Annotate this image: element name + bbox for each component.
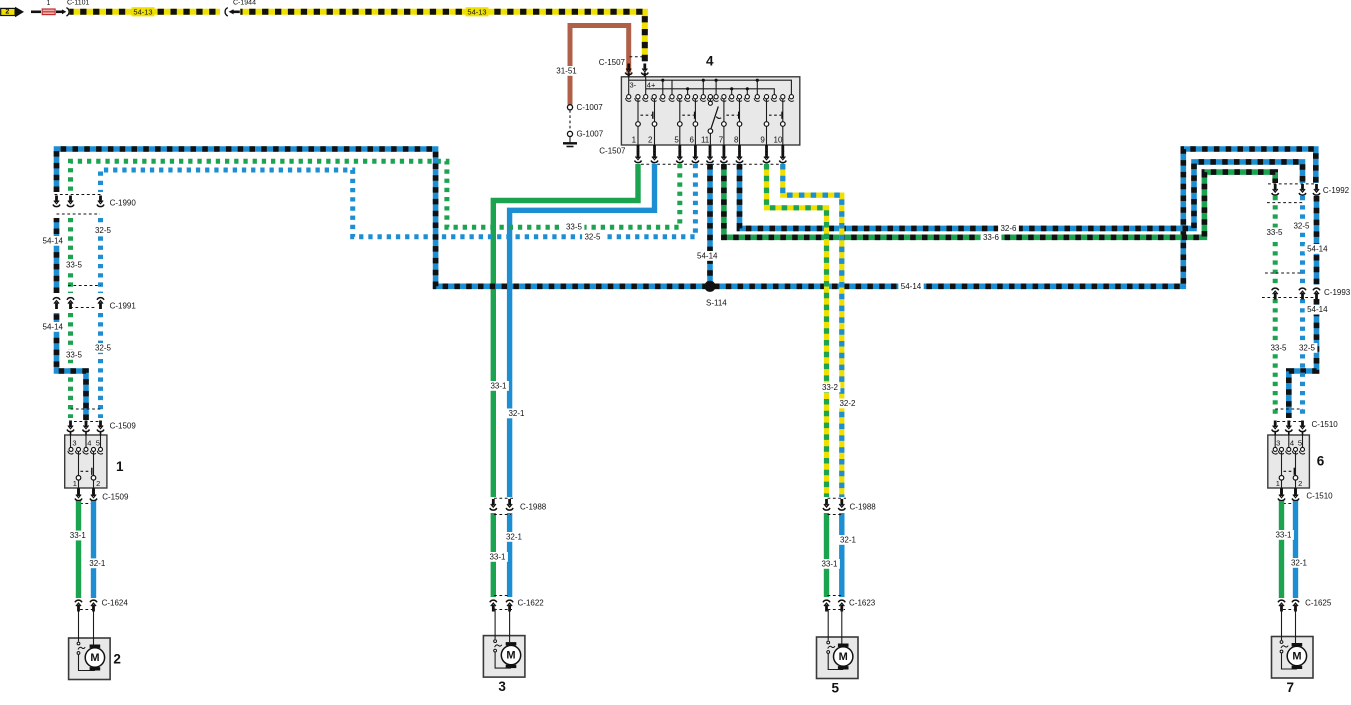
svg-text:54-14: 54-14 [43, 237, 64, 246]
svg-text:54-14: 54-14 [1307, 305, 1328, 314]
connector C-1988 (motor 5) [828, 497, 847, 499]
svg-text:3: 3 [72, 439, 76, 448]
svg-text:33-6: 33-6 [983, 233, 1000, 242]
wire 33-5 green dashed from pin 5 to switch 1 [71, 161, 680, 227]
wire 33-1 green switch 6 to motor 7 [1279, 501, 1284, 598]
svg-text:M: M [90, 652, 99, 664]
svg-text:32-1: 32-1 [1291, 559, 1308, 568]
svg-text:5: 5 [674, 135, 679, 144]
switch 6 body [1268, 435, 1310, 488]
svg-text:32-5: 32-5 [95, 344, 112, 353]
svg-text:7: 7 [1286, 680, 1294, 695]
svg-text:3: 3 [498, 679, 506, 694]
svg-text:54-14: 54-14 [697, 252, 718, 261]
wire 33-2 yellow/green from pin 9 [767, 164, 827, 497]
svg-text:10: 10 [774, 135, 783, 144]
right column wire labels upper [1264, 228, 1285, 238]
switch module 4 (master window switch) body [621, 77, 799, 145]
svg-text:4: 4 [1290, 439, 1294, 448]
svg-text:4: 4 [87, 439, 91, 448]
motor 3 armature [506, 642, 517, 645]
left column wire labels upper [93, 226, 114, 236]
connector C-1510 above switch 6 [1275, 408, 1302, 410]
switch module 4 ganged-switch linkages [641, 114, 653, 116]
svg-text:5: 5 [1298, 439, 1302, 448]
svg-text:31-51: 31-51 [556, 67, 577, 76]
svg-text:C-1988: C-1988 [850, 503, 877, 512]
connector C-1509 below switch 1 [77, 488, 80, 495]
svg-text:C-1624: C-1624 [102, 599, 129, 608]
svg-text:6: 6 [1317, 454, 1325, 469]
motor 7 box (right front) [1272, 637, 1314, 679]
wire 54-14 blue/black from pin 11 to splice S-114 [707, 164, 713, 284]
svg-text:C-1625: C-1625 [1305, 599, 1332, 608]
svg-text:32-5: 32-5 [584, 233, 601, 242]
svg-text:32-5: 32-5 [1299, 344, 1316, 353]
svg-text:C-1944: C-1944 [233, 0, 256, 7]
wire labels middle pair lower [504, 532, 525, 542]
svg-text:C-1007: C-1007 [577, 103, 604, 112]
connector C-1991 [68, 285, 101, 287]
wire 33-5 green dashed right column [1273, 196, 1278, 285]
svg-text:1: 1 [632, 135, 637, 144]
svg-text:C-1507: C-1507 [599, 58, 626, 67]
svg-text:33-5: 33-5 [66, 351, 83, 360]
connector C-1510 below switch 6 [1280, 488, 1283, 495]
svg-text:32-5: 32-5 [95, 226, 112, 235]
wire 33-6 green/black from pin 7 to right side [724, 164, 1275, 237]
wire 32-1 blue from pin 2 to motor 3 [510, 164, 655, 497]
svg-text:C-1992: C-1992 [1323, 186, 1350, 195]
wire labels motor 5 pair [838, 535, 859, 545]
wire 32-2 yellow/blue from pin 10 [783, 164, 842, 497]
svg-text:32-6: 32-6 [1000, 224, 1017, 233]
wire 54-14 blue/black right to switch 6 [1314, 196, 1320, 285]
wire 54-14 blue/black main loop left to switch 1 [57, 313, 87, 420]
wire labels middle pair upper [488, 381, 509, 391]
wire 32-1 blue to motor 5 [839, 513, 844, 597]
wire 54-13 yellow/black to switch module 4 [240, 12, 645, 62]
connector C-1624 [75, 600, 82, 602]
svg-text:2: 2 [5, 9, 9, 16]
svg-text:32-1: 32-1 [89, 559, 106, 568]
connector C-1990 [55, 194, 102, 196]
wire 32-5 blue dashed right column [1300, 196, 1305, 285]
svg-text:2: 2 [96, 479, 100, 488]
svg-text:2: 2 [648, 135, 653, 144]
fuse 1 [42, 9, 55, 15]
motor 5 box (right rear) [817, 637, 859, 679]
svg-text:33-5: 33-5 [1266, 228, 1283, 237]
svg-text:C-1509: C-1509 [102, 493, 129, 502]
connector C-1988 (motor 3) [494, 497, 514, 499]
connector C-1509 above switch 1 [71, 408, 101, 410]
motor 2 thermal breaker [77, 642, 80, 645]
motor 7 leads [1281, 610, 1283, 641]
switch 1 body [65, 435, 107, 488]
right column wire labels lower [1305, 305, 1330, 315]
wire 32-1 blue switch 6 to motor 7 [1293, 501, 1298, 598]
svg-text:M: M [1292, 650, 1301, 662]
motor 3 leads [494, 609, 496, 640]
svg-text:33-1: 33-1 [490, 382, 507, 391]
svg-text:2: 2 [113, 652, 121, 667]
svg-text:32-1: 32-1 [840, 536, 857, 545]
connector C-1623 [828, 595, 844, 597]
wire labels 33-5 / 32-5 horizontal [564, 222, 585, 232]
svg-text:S-114: S-114 [706, 298, 727, 307]
svg-text:32-1: 32-1 [506, 533, 523, 542]
svg-text:33-5: 33-5 [1270, 344, 1287, 353]
svg-text:C-1993: C-1993 [1324, 288, 1351, 297]
svg-text:C-1510: C-1510 [1312, 420, 1339, 429]
motor 7 thermal breaker [1280, 641, 1283, 644]
svg-text:6: 6 [689, 135, 694, 144]
motor 5 thermal breaker [827, 641, 830, 644]
switch module 4 switch contacts [637, 99, 639, 122]
svg-text:9: 9 [760, 135, 765, 144]
switch module 4 bus from pin 3- [628, 77, 630, 95]
svg-text:54-13: 54-13 [467, 7, 486, 16]
svg-text:4+: 4+ [647, 81, 656, 90]
svg-text:33-2: 33-2 [822, 383, 839, 392]
svg-text:33-1: 33-1 [489, 553, 506, 562]
switch 1 internals [70, 432, 72, 436]
svg-text:1: 1 [46, 0, 50, 7]
motor 3 box (left rear) [483, 636, 525, 678]
wire 33-1 green from pin 1 to motor 3 [493, 164, 638, 497]
svg-text:M: M [506, 650, 515, 662]
svg-text:32-2: 32-2 [839, 399, 856, 408]
wire 54-13 feed: black lead from arrow [24, 11, 31, 13]
svg-text:7: 7 [719, 135, 724, 144]
connector C-1622 [494, 595, 510, 597]
connector C-1625 [1278, 600, 1285, 602]
svg-text:C-1101: C-1101 [67, 0, 90, 7]
svg-text:33-5: 33-5 [66, 260, 83, 269]
svg-text:5: 5 [831, 681, 839, 696]
svg-text:2: 2 [1298, 479, 1302, 488]
svg-text:C-1510: C-1510 [1306, 492, 1333, 501]
svg-text:C-1990: C-1990 [110, 199, 137, 208]
motor 5 leads [827, 610, 829, 641]
motor 5 armature [838, 644, 849, 647]
switch module 4 bus from pin 4+ [645, 77, 647, 95]
switch module 4 pin 11 switch [709, 99, 711, 101]
wire 32-1 blue switch 1 to motor 2 [91, 501, 96, 598]
circuit arrow 2 (power feed) [1, 8, 15, 15]
svg-text:1: 1 [1276, 479, 1280, 488]
svg-text:54-14: 54-14 [43, 323, 64, 332]
wire 31-51 brown ground wire [570, 26, 629, 105]
wire 54-13 yellow/black horizontal run [69, 9, 220, 15]
connector C-1101 [62, 9, 66, 14]
connector C-1993 [1265, 272, 1303, 274]
left column wire labels lower [39, 322, 64, 332]
svg-text:33-1: 33-1 [821, 560, 838, 569]
wire 32-6 blue/black from pin 8 to right side [740, 162, 1303, 229]
svg-text:32-1: 32-1 [508, 409, 525, 418]
svg-text:4: 4 [706, 54, 714, 69]
svg-text:8: 8 [734, 135, 739, 144]
svg-text:G-1007: G-1007 [577, 129, 604, 138]
svg-text:54-14: 54-14 [901, 282, 922, 291]
splice S-114 [704, 281, 715, 292]
svg-text:33-1: 33-1 [70, 531, 87, 540]
svg-text:54-14: 54-14 [1307, 245, 1328, 254]
svg-text:33-5: 33-5 [566, 223, 583, 232]
svg-text:C-1622: C-1622 [518, 599, 545, 608]
motor 3 thermal breaker [494, 640, 497, 643]
ground G-1007 [567, 131, 572, 136]
connector C-1507 bottom [637, 145, 640, 152]
motor 2 armature [90, 645, 101, 648]
connector C-1992 [1268, 183, 1317, 185]
svg-text:M: M [839, 651, 848, 663]
switch 6 internals [1274, 432, 1276, 436]
switch module 4 internals: terminal circles row [627, 95, 631, 99]
motor 2 box (left front) [69, 638, 111, 680]
connector C-1007 [567, 105, 572, 110]
svg-text:C-1507: C-1507 [599, 147, 626, 156]
svg-text:C-1991: C-1991 [110, 302, 137, 311]
svg-text:C-1509: C-1509 [110, 422, 137, 431]
wire 33-1 green to motor 5 [824, 513, 829, 597]
svg-text:32-5: 32-5 [1293, 221, 1310, 230]
wire 32-5 blue dashed from pin 6 to switch 1 [101, 164, 696, 237]
wire 33-1 green switch 1 to motor 2 [76, 501, 81, 598]
svg-text:C-1988: C-1988 [520, 503, 547, 512]
connector C-1507 top, pins 3- and 4+ [630, 56, 645, 58]
svg-text:11: 11 [701, 135, 710, 144]
svg-text:C-1623: C-1623 [849, 599, 876, 608]
connector C-1944 [225, 8, 228, 16]
svg-text:1: 1 [73, 479, 77, 488]
svg-text:1: 1 [116, 459, 124, 474]
motor 2 leads [78, 611, 80, 642]
svg-text:33-1: 33-1 [1275, 531, 1292, 540]
svg-text:5: 5 [96, 439, 100, 448]
motor 7 armature [1292, 643, 1303, 646]
svg-text:3-: 3- [630, 81, 637, 90]
svg-text:54-13: 54-13 [133, 7, 152, 16]
svg-text:3: 3 [1276, 439, 1280, 448]
